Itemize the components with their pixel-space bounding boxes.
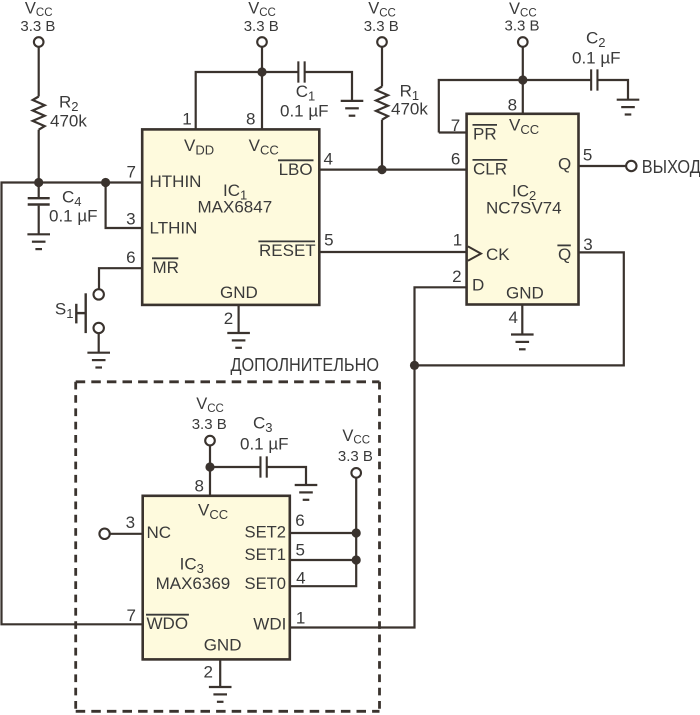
- svg-text:C3: C3: [253, 414, 273, 436]
- svg-text:VCC: VCC: [248, 0, 276, 19]
- svg-text:1: 1: [182, 109, 191, 128]
- svg-text:3.3 В: 3.3 В: [505, 17, 540, 34]
- svg-text:NC7SV74: NC7SV74: [486, 198, 562, 217]
- svg-text:0.1 µF: 0.1 µF: [280, 101, 329, 120]
- svg-text:SET0: SET0: [245, 574, 287, 593]
- svg-text:WDI: WDI: [253, 615, 286, 634]
- svg-text:470k: 470k: [391, 100, 428, 119]
- svg-text:D: D: [472, 275, 484, 294]
- svg-text:S1: S1: [55, 300, 74, 322]
- svg-text:6: 6: [295, 511, 304, 530]
- svg-text:SET1: SET1: [245, 545, 287, 564]
- svg-text:3.3 В: 3.3 В: [244, 18, 279, 35]
- svg-text:2: 2: [452, 267, 461, 286]
- svg-text:8: 8: [508, 95, 517, 114]
- svg-text:3.3 В: 3.3 В: [20, 18, 55, 35]
- svg-text:VCC: VCC: [342, 427, 370, 447]
- svg-text:CK: CK: [486, 245, 510, 264]
- svg-text:4: 4: [508, 308, 517, 327]
- svg-text:3.3 В: 3.3 В: [338, 448, 373, 465]
- svg-text:RESET: RESET: [259, 241, 316, 260]
- svg-text:VCC: VCC: [25, 0, 53, 19]
- svg-text:5: 5: [324, 231, 333, 250]
- svg-text:2: 2: [203, 663, 212, 682]
- svg-text:5: 5: [583, 146, 592, 165]
- svg-text:ДОПОЛНИТЕЛЬНО: ДОПОЛНИТЕЛЬНО: [231, 355, 380, 375]
- svg-text:PR: PR: [473, 124, 497, 143]
- svg-text:MR: MR: [153, 258, 179, 277]
- svg-text:3: 3: [583, 235, 592, 254]
- svg-text:3.3 В: 3.3 В: [364, 18, 399, 35]
- svg-text:3: 3: [126, 210, 135, 229]
- svg-text:C1: C1: [296, 82, 316, 104]
- svg-text:GND: GND: [506, 283, 544, 302]
- svg-text:LTHIN: LTHIN: [150, 218, 198, 237]
- svg-text:7: 7: [126, 606, 135, 625]
- svg-text:2: 2: [224, 309, 233, 328]
- svg-text:0.1 µF: 0.1 µF: [572, 48, 621, 67]
- svg-text:6: 6: [451, 150, 460, 169]
- svg-text:LBO: LBO: [279, 160, 313, 179]
- svg-text:MAX6369: MAX6369: [156, 574, 231, 593]
- svg-text:0.1 µF: 0.1 µF: [240, 434, 289, 453]
- svg-text:Q: Q: [558, 245, 571, 264]
- svg-text:MAX6847: MAX6847: [198, 197, 273, 216]
- svg-text:5: 5: [295, 541, 304, 560]
- svg-text:Q: Q: [558, 154, 571, 173]
- svg-text:GND: GND: [204, 636, 242, 655]
- svg-text:NC: NC: [147, 523, 172, 542]
- svg-text:7: 7: [451, 116, 460, 135]
- svg-text:0.1 µF: 0.1 µF: [49, 206, 98, 225]
- svg-text:WDO: WDO: [147, 614, 189, 633]
- svg-text:8: 8: [194, 477, 203, 496]
- svg-text:VCC: VCC: [196, 395, 224, 415]
- svg-text:GND: GND: [220, 283, 258, 302]
- svg-text:ВЫХОД: ВЫХОД: [642, 157, 700, 177]
- svg-text:VCC: VCC: [368, 0, 396, 19]
- svg-text:1: 1: [453, 231, 462, 250]
- svg-text:7: 7: [126, 163, 135, 182]
- svg-text:4: 4: [323, 150, 332, 169]
- svg-text:3.3 В: 3.3 В: [192, 416, 227, 433]
- svg-text:C2: C2: [586, 29, 606, 51]
- svg-text:470k: 470k: [50, 111, 87, 130]
- svg-text:SET2: SET2: [245, 523, 287, 542]
- svg-text:8: 8: [246, 109, 255, 128]
- svg-text:HTHIN: HTHIN: [150, 172, 202, 191]
- svg-text:CLR: CLR: [473, 159, 507, 178]
- svg-text:1: 1: [296, 609, 305, 628]
- svg-text:6: 6: [126, 248, 135, 267]
- svg-text:3: 3: [126, 513, 135, 532]
- svg-text:4: 4: [296, 569, 305, 588]
